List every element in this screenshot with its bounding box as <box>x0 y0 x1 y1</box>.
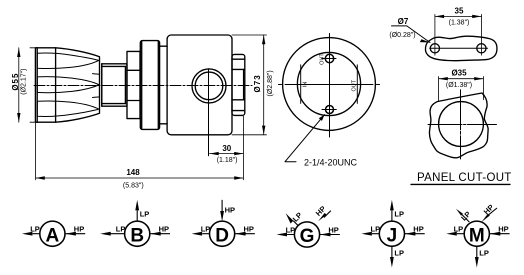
svg-text:Ø7: Ø7 <box>398 17 409 26</box>
dim 35 line <box>435 15 482 17</box>
stem thread top <box>102 65 126 67</box>
cutout horizontal centerline <box>428 124 497 126</box>
front flat right <box>356 65 358 104</box>
panel cutout underline <box>411 183 510 185</box>
svg-text:Ø55: Ø55 <box>11 73 20 91</box>
dim O35 line <box>439 78 484 80</box>
svg-text:(Ø2.17"): (Ø2.17") <box>21 68 28 94</box>
dim 148 arrows <box>36 176 244 179</box>
nut facet bottom <box>127 100 140 102</box>
svg-text:LP: LP <box>479 249 489 258</box>
svg-text:(Ø2.88"): (Ø2.88") <box>267 70 274 96</box>
cutout blob <box>429 93 488 158</box>
front horizontal centerline <box>279 84 380 86</box>
svg-text:LP: LP <box>201 225 211 234</box>
connector cap bottom <box>232 110 244 112</box>
step section <box>160 46 168 124</box>
stem <box>102 64 127 106</box>
dim 30 line <box>210 153 244 155</box>
svg-text:B: B <box>130 225 144 246</box>
svg-text:Ø35: Ø35 <box>451 69 467 78</box>
svg-text:J: J <box>387 225 398 246</box>
bone hole right vline <box>480 14 482 55</box>
dim 55 line <box>18 48 20 122</box>
dim O35 arrows <box>439 77 484 80</box>
svg-text:LP: LP <box>30 225 40 234</box>
nut facet top <box>127 69 140 71</box>
dim 73 arrows <box>262 35 265 135</box>
disc flange <box>140 41 159 130</box>
svg-text:LP: LP <box>454 225 464 234</box>
cutout circle <box>439 102 484 147</box>
dim 148 ext right <box>242 116 244 180</box>
dim 73 line <box>263 35 265 135</box>
svg-text:HP: HP <box>413 225 423 234</box>
dim 73 extension top <box>232 34 267 36</box>
connector <box>232 54 245 115</box>
knob ridge middle <box>37 77 99 93</box>
port vertical line <box>208 69 210 156</box>
dim O35 ext right <box>482 77 484 100</box>
centerline side view <box>34 85 252 87</box>
dim 55 arrows <box>17 48 20 122</box>
body <box>167 35 232 135</box>
svg-text:LP: LP <box>116 225 126 234</box>
front view outer circle <box>283 38 376 131</box>
svg-text:(1.38"): (1.38") <box>449 20 470 27</box>
knob taper line <box>55 48 57 122</box>
top screw cross <box>322 58 336 60</box>
leader O7 shoulder <box>392 26 431 43</box>
port outer circle <box>192 69 226 103</box>
knob groove lower <box>93 96 100 99</box>
bottom screw <box>326 106 334 114</box>
stem thread end <box>124 66 126 103</box>
knob ridge top <box>37 53 98 68</box>
svg-text:PANEL CUT-OUT: PANEL CUT-OUT <box>417 172 512 184</box>
svg-text:(Ø1.38"): (Ø1.38") <box>446 82 472 89</box>
svg-text:HP: HP <box>328 225 338 234</box>
svg-text:Ø73: Ø73 <box>253 74 262 92</box>
connector facet bottom <box>232 99 245 101</box>
dim 55 extension top <box>30 47 38 49</box>
knob outline <box>35 48 99 122</box>
svg-text:HP: HP <box>159 225 169 234</box>
port inner circle <box>195 72 223 100</box>
knob ridge bottom <box>37 101 98 116</box>
svg-text:(1.18"): (1.18") <box>217 157 238 164</box>
leader O7 arrow <box>420 39 430 42</box>
dim 30 arrows <box>210 152 244 155</box>
symbol A <box>22 221 85 246</box>
svg-text:HP: HP <box>498 225 508 234</box>
leader UNC <box>285 115 325 162</box>
symbol B <box>100 200 170 246</box>
symbol M <box>446 208 509 268</box>
svg-text:HP: HP <box>74 225 84 234</box>
connector cap top <box>232 58 244 60</box>
bone plate outline <box>425 36 496 61</box>
svg-text:HP: HP <box>244 225 254 234</box>
svg-text:OUT: OUT <box>319 53 325 65</box>
stem thread bottom <box>102 103 126 105</box>
symbol G <box>277 211 340 247</box>
front flat left <box>300 65 302 104</box>
bone hole left vline <box>434 14 436 55</box>
dim O35 ext left <box>438 77 440 102</box>
svg-text:LP: LP <box>140 210 150 219</box>
connector facet top <box>232 68 245 70</box>
dim 73 extension bottom <box>232 134 267 136</box>
symbol D <box>192 200 255 246</box>
dim 35 arrows <box>435 15 482 18</box>
leader UNC arrow <box>319 115 325 121</box>
svg-text:LP: LP <box>286 225 296 234</box>
dim 148 ext left <box>35 123 37 180</box>
svg-text:A: A <box>46 225 60 246</box>
cutout vertical centerline <box>460 90 462 159</box>
svg-text:(Ø0.28"): (Ø0.28") <box>389 32 415 39</box>
svg-text:D: D <box>215 225 229 246</box>
disc inner right <box>157 41 159 129</box>
symbol J <box>361 200 424 268</box>
knob face <box>101 64 103 106</box>
panel nut <box>127 51 140 118</box>
knob groove upper <box>93 73 100 76</box>
svg-text:LP: LP <box>371 225 381 234</box>
svg-text:LP: LP <box>394 249 404 258</box>
front vertical centerline <box>329 34 331 138</box>
svg-text:OUT: OUT <box>351 79 357 91</box>
dim 55 extension bottom <box>30 121 38 123</box>
dim 148 line <box>36 177 244 179</box>
bone hole right <box>477 44 486 53</box>
svg-text:IN: IN <box>303 82 309 88</box>
svg-text:2-1/4-20UNC: 2-1/4-20UNC <box>304 157 358 167</box>
svg-text:HP: HP <box>225 206 235 215</box>
svg-text:M: M <box>469 225 485 246</box>
front view inner circle <box>297 52 360 115</box>
top screw <box>325 54 333 62</box>
bone hole left <box>430 44 439 53</box>
knob rim line <box>36 48 38 122</box>
svg-text:G: G <box>300 226 315 247</box>
disc inner left <box>141 41 143 129</box>
bone holes axis <box>430 47 488 49</box>
svg-text:35: 35 <box>455 7 464 16</box>
svg-text:LP: LP <box>394 210 404 219</box>
connector middle inset <box>243 69 245 99</box>
bottom screw cross <box>322 109 336 111</box>
svg-text:148: 148 <box>126 168 140 177</box>
svg-text:(5.83"): (5.83") <box>123 183 144 190</box>
svg-text:30: 30 <box>222 144 231 153</box>
